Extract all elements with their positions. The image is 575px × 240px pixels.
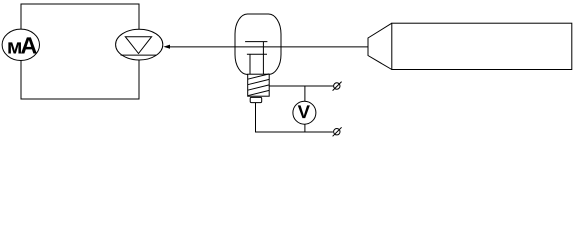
lamp anode lead	[262, 42, 264, 75]
milliammeter mA	[2, 29, 39, 60]
lamp base bottom contact	[250, 97, 262, 102]
lamp screw base	[248, 74, 270, 96]
voltmeter top lead	[304, 86, 306, 101]
wire bottom rail of meter loop	[21, 60, 139, 99]
lamp envelope	[235, 14, 281, 75]
light ray with arrow toward photocell	[163, 45, 368, 49]
wire from base contact down to bottom rail	[256, 103, 333, 132]
voltmeter V	[293, 101, 316, 124]
wire from base side to upper terminal	[269, 85, 333, 87]
upper supply terminal	[333, 82, 342, 91]
collimator tube body	[392, 23, 572, 69]
lamp cathode plate	[247, 53, 267, 55]
lamp anode plate	[245, 41, 267, 43]
collimator tapered nose	[368, 23, 392, 69]
lower supply terminal	[333, 127, 342, 136]
voltmeter bottom lead	[304, 124, 306, 132]
wire top rail of meter loop	[21, 4, 139, 30]
lamp cathode lead	[249, 54, 251, 74]
photocell (diode in circle)	[116, 29, 163, 60]
